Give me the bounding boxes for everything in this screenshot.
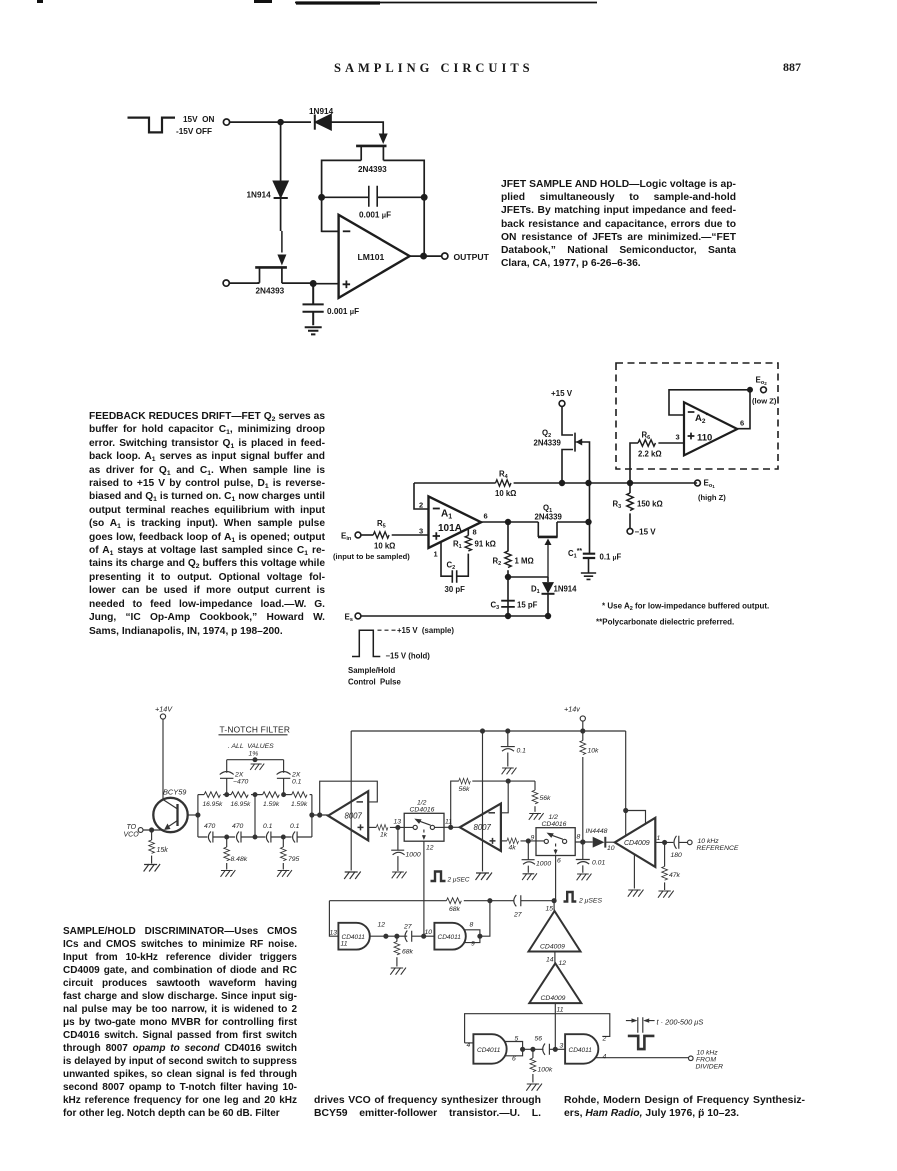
label 68k (top) (449, 906, 461, 913)
node: R3 branch on rail (628, 481, 633, 486)
filter mid vertical (254, 795, 256, 837)
wire: control input to diode (230, 121, 311, 123)
resistor 8.48k (224, 837, 230, 870)
label 0.01 (592, 860, 605, 867)
caption continuation center (314, 1094, 541, 1121)
inverter CD4009 (sawtooth driver) (615, 818, 656, 867)
label pin 12 (gate1) (378, 922, 386, 929)
label 2 uSES (578, 898, 602, 905)
svg-text:2N4339: 2N4339 (535, 513, 563, 522)
svg-text:C3: C3 (491, 601, 500, 612)
terminal 10 kHz REFERENCE (688, 840, 693, 845)
ground on shunt rail (250, 764, 264, 770)
capacitor 180 (674, 836, 687, 849)
label pin 2 (gate4) (602, 1036, 607, 1043)
diode D-left 1N914 (vertical, cathode down) (274, 181, 288, 198)
label A1 (441, 509, 452, 521)
plus sign A2 (688, 433, 695, 440)
svg-text:Ein: Ein (341, 532, 352, 543)
svg-text:47k: 47k (669, 872, 681, 879)
label pin 11 (557, 1007, 564, 1014)
sample/hold control pulse waveform (352, 630, 380, 656)
gate3 output tie bracket (505, 1042, 523, 1056)
wire: A2 feedback loop (669, 390, 750, 415)
ground below 8.48k (221, 870, 236, 877)
svg-text:13: 13 (394, 819, 402, 826)
label +14V (155, 705, 173, 714)
analog switch CD4016 second (536, 828, 575, 856)
wire: CD4009 out down to node3 (554, 1003, 556, 1049)
transistor Q1 2N4339 switch (538, 522, 589, 577)
label pin 13 (gate1) (330, 930, 338, 937)
svg-text:2N4393: 2N4393 (358, 165, 387, 174)
node: shunt rail ground tap (253, 758, 257, 762)
svg-text:1.59k: 1.59k (291, 801, 308, 808)
pin 8 stub and resistor R1 91k (456, 529, 471, 577)
svg-text:2: 2 (602, 1036, 607, 1043)
svg-text:68k: 68k (449, 906, 461, 913)
label pin 6 (switch2 ctl) (557, 858, 561, 865)
label pin 3 (560, 1043, 564, 1050)
ground below 0.1 (502, 768, 517, 775)
label pin 4 (gate4) (603, 1054, 607, 1061)
label pin 12 (559, 960, 567, 967)
label 180 (671, 852, 683, 859)
wire: minus input stub 8007-2 (501, 781, 508, 813)
label R2 (493, 557, 502, 568)
label 1N914 (D1) (554, 585, 578, 594)
svg-text:15V ON: 15V ON (183, 115, 214, 124)
wire: switch2 out to diode (575, 841, 593, 843)
wire: E_s rail (361, 615, 548, 617)
ground below hold cap (305, 327, 322, 334)
filter capacitor rail (198, 832, 312, 843)
node: pin15 junction (552, 899, 556, 903)
svg-text:10 kHz: 10 kHz (697, 1050, 719, 1057)
label 4k (509, 845, 517, 852)
terminal E_o1 (695, 480, 701, 486)
svg-text:15k: 15k (157, 847, 169, 854)
op-amp 8007 (first, output to filter) (328, 791, 368, 840)
label 1k (380, 832, 388, 839)
capacitor 27 (coupling) (405, 931, 424, 942)
label 1 MOhm (515, 557, 534, 566)
MVBR feedback top wire with 68k (329, 898, 514, 904)
svg-text:2 μSES: 2 μSES (578, 898, 602, 905)
node: 1k / 1000 junction pin 13 (396, 825, 400, 829)
label 8.48k (231, 856, 248, 863)
node: input tie 8007-2 (449, 825, 453, 829)
svg-text:8: 8 (473, 528, 477, 537)
svg-text:CD4011: CD4011 (438, 934, 462, 941)
label R3 (613, 500, 622, 511)
label 1000 (first) (406, 852, 421, 859)
inverted pulse symbol (628, 1036, 655, 1049)
svg-text:10 kΩ: 10 kΩ (374, 542, 395, 551)
label CD4009 (624, 840, 650, 847)
pulse symbol 2uSEC (431, 872, 446, 882)
label Control Pulse (348, 678, 402, 687)
capacitor 27 (to CD4009 in) (514, 895, 554, 906)
wire: JFET to plus-input node (258, 282, 314, 284)
feedback loop 8007-1 (320, 781, 378, 816)
label 1/2 CD4016 (first) (410, 800, 435, 814)
label 56k (to ground) (540, 795, 552, 802)
svg-text:91 kΩ: 91 kΩ (475, 540, 496, 549)
svg-text:**Polycarbonate dielectric pre: **Polycarbonate dielectric preferred. (596, 618, 734, 627)
svg-text:+14V: +14V (155, 705, 173, 714)
svg-text:150 kΩ: 150 kΩ (637, 500, 663, 509)
resistor R5 10k input (361, 532, 429, 538)
label 100k (538, 1067, 553, 1074)
ground below 1000 (second) (522, 873, 537, 880)
terminal +15V (559, 401, 565, 407)
node: 100k tap (531, 1047, 535, 1051)
capacitor 2X 0.1 (right shunt) (277, 760, 291, 795)
svg-text:-15V OFF: -15V OFF (176, 127, 212, 136)
svg-text:27: 27 (403, 924, 412, 931)
svg-text:15: 15 (546, 906, 554, 913)
label E_in (341, 532, 352, 543)
wire: gate4 output to divider terminal (595, 1057, 688, 1059)
svg-text:0.001 μF: 0.001 μF (359, 211, 391, 220)
node: base/filter junction (196, 813, 200, 817)
label Sample/Hold (348, 666, 395, 675)
analog switch CD4016 first (404, 813, 444, 841)
svg-text:2X: 2X (291, 772, 301, 779)
ground below 47k (658, 891, 674, 898)
svg-text:4k: 4k (509, 845, 517, 852)
node: cap rail left tap (225, 835, 229, 839)
wire: gate1 output (370, 935, 407, 937)
wire: +14V to BCY59 collector (162, 719, 164, 799)
label pin 10 (425, 929, 433, 936)
svg-text:BCY59: BCY59 (163, 788, 186, 797)
resistor 68k to ground (394, 936, 400, 966)
svg-text:R6: R6 (642, 431, 651, 442)
feedback resistor 56k (8007-2) (451, 778, 535, 827)
svg-text:CD4011: CD4011 (569, 1047, 593, 1054)
filter resistor rail (198, 792, 312, 798)
label 0.1 (C c) (263, 823, 273, 830)
node: pin3 junction (553, 1047, 557, 1051)
svg-text:REFERENCE: REFERENCE (697, 845, 739, 852)
label 27 (coupling) (403, 924, 412, 931)
op-amp A1 101A (429, 496, 482, 548)
svg-text:1 MΩ: 1 MΩ (515, 557, 534, 566)
transistor Q3 BCY59 emitter follower (153, 798, 187, 832)
label 470 (C b) (232, 823, 244, 830)
node: 47k tap (663, 840, 667, 844)
resistor 56k to ground (532, 781, 538, 812)
node: pin10 junction (422, 934, 426, 938)
svg-text:DIVIDER: DIVIDER (696, 1064, 724, 1071)
svg-text:8: 8 (577, 834, 581, 841)
svg-text:16.95k: 16.95k (231, 801, 252, 808)
wire: plus input (313, 283, 338, 285)
diode IN4448 (593, 837, 615, 848)
label T-NOTCH FILTER (220, 725, 291, 735)
svg-text:10 kHz: 10 kHz (698, 838, 720, 845)
svg-text:1: 1 (657, 835, 661, 842)
label pin 9 (gate2) (471, 941, 475, 948)
label 56 (535, 1036, 543, 1043)
label 150 kOhm (637, 500, 663, 509)
label pin 13 (394, 819, 402, 826)
label pin 9 (531, 835, 535, 842)
svg-text:CD4009: CD4009 (540, 944, 565, 951)
node: cap rail right tap (281, 835, 285, 839)
node: gate1 out dot (384, 934, 388, 938)
svg-text:(high Z): (high Z) (698, 493, 726, 502)
svg-text:1: 1 (434, 550, 438, 559)
capacitor 56 (543, 1044, 565, 1055)
svg-text:3: 3 (560, 1043, 564, 1050)
inverter CD4009 (second, pointing up) (529, 963, 581, 1003)
svg-text:+15 V (sample): +15 V (sample) (397, 626, 454, 635)
svg-text:1/2: 1/2 (417, 800, 427, 807)
svg-text:t · 200-500 μS: t · 200-500 μS (657, 1018, 704, 1027)
svg-text:8007: 8007 (345, 812, 363, 821)
svg-text:1k: 1k (380, 832, 388, 839)
svg-text:8: 8 (470, 922, 474, 929)
node: 4k / 1000 junction pin 9 (526, 839, 530, 843)
minus sign 8007-2 (489, 812, 496, 814)
label C3 (491, 601, 500, 612)
svg-text:R4: R4 (499, 470, 509, 481)
wire: minus input from feedback (322, 230, 339, 232)
label pin 12 (426, 845, 434, 852)
node: bracket dot (478, 934, 482, 938)
label 0.1 uF (600, 553, 622, 562)
ground below 0.01 (577, 874, 592, 881)
label CD4009 (up2) (541, 995, 566, 1002)
label 16.95k (R a) (203, 801, 224, 808)
svg-text:R5: R5 (377, 519, 386, 530)
page number 887 (783, 60, 801, 75)
label ALL VALUES 1% (228, 743, 274, 758)
pin 1 stub wire (441, 542, 452, 576)
label 470 (C a) (204, 823, 216, 830)
supply corner down to CD4009 (625, 731, 627, 811)
svg-text:A2*: A2* (695, 411, 709, 426)
svg-text:Q2: Q2 (542, 429, 551, 440)
node: R2/D1 junction (506, 575, 511, 580)
wire: between CD4009 stages (554, 952, 556, 964)
label pin 8 (gate2) (470, 922, 474, 929)
node: gate3 bracket dot (521, 1047, 525, 1051)
label E_o1 (704, 479, 716, 490)
svg-text:27: 27 (513, 912, 522, 919)
label IN4448 (586, 828, 608, 835)
svg-text:FROM: FROM (696, 1057, 716, 1064)
svg-text:R1: R1 (453, 540, 462, 551)
label 2N4339 (Q1) (535, 513, 563, 522)
svg-text:101A: 101A (438, 523, 462, 534)
node: feedback cap junction left (319, 195, 324, 200)
svg-text:Es: Es (345, 613, 353, 624)
resistor 1k (8007-1 plus input) (368, 825, 413, 831)
label CD4011 (gate2) (438, 934, 462, 941)
svg-text:13: 13 (330, 930, 338, 937)
svg-text:12: 12 (559, 960, 567, 967)
svg-text:2X: 2X (234, 772, 244, 779)
wire: A2 output up to E_o2 (737, 390, 750, 429)
wire: A1 output to Q1 (481, 521, 538, 523)
svg-text:A1: A1 (441, 509, 452, 521)
terminal E_in (355, 532, 361, 538)
svg-text:IN4448: IN4448 (586, 828, 608, 835)
power line through 8007-1 (350, 731, 352, 871)
dashed level line +15V (378, 629, 396, 631)
node: resistor rail right cap tap (282, 793, 286, 797)
node: cap rail mid tap (253, 835, 257, 839)
svg-text:LM101: LM101 (358, 252, 385, 262)
wire: bracket up to top wire (480, 901, 490, 937)
label D1 (531, 585, 540, 596)
label 0.1 (bypass) (517, 748, 527, 755)
node: output/R2 junction (506, 520, 511, 525)
svg-text:1%: 1% (249, 751, 259, 758)
label 10 kOhm (R4) (495, 489, 516, 498)
node: Q2 source on rail (560, 481, 565, 486)
pin 8 label (473, 528, 477, 537)
svg-text:470: 470 (204, 823, 216, 830)
caption block 3: SAMPLE/HOLD DISCRIMINATOR (63, 925, 297, 1120)
svg-text:CD4016: CD4016 (542, 821, 567, 828)
label pin 11 (gate1) (341, 941, 348, 948)
svg-text:12: 12 (426, 845, 434, 852)
svg-text:+15 V: +15 V (551, 389, 573, 398)
svg-text:VCO: VCO (124, 832, 140, 839)
control line switch2 to MVBR (555, 856, 557, 901)
label 1000 (second) (536, 861, 551, 868)
svg-text:11: 11 (557, 1007, 564, 1014)
label 2.2 kOhm (638, 450, 662, 459)
svg-text:68k: 68k (402, 949, 414, 956)
svg-text:3: 3 (419, 527, 423, 536)
plus sign LM101 (343, 281, 351, 289)
label R4 (499, 470, 509, 481)
label CD4011 (gate1) (342, 934, 366, 941)
svg-text:R3: R3 (613, 500, 622, 511)
svg-text:0.1: 0.1 (517, 748, 527, 755)
ground stub below CD4009 (633, 855, 635, 889)
node: 68k tap dot (395, 934, 399, 938)
svg-text:6: 6 (512, 1056, 516, 1063)
svg-text:CD4011: CD4011 (477, 1047, 501, 1054)
wire: feedback loop right side down to output node (383, 160, 424, 254)
svg-text:1000: 1000 (406, 852, 421, 859)
label 47k (669, 872, 681, 879)
gate CD4011 third (473, 1034, 506, 1064)
label -15 V (hold) (386, 652, 431, 661)
capacitor 1000 (second) (522, 841, 535, 873)
ground below 56k (529, 813, 544, 820)
node: hold-node on rail (586, 481, 591, 486)
ground below CD4009 (628, 890, 644, 897)
node: pin8 / 10k junction (581, 840, 585, 844)
svg-text:1000: 1000 (536, 861, 551, 868)
caption block 1: JFET SAMPLE AND HOLD (501, 178, 736, 270)
svg-text:Control Pulse: Control Pulse (348, 678, 402, 687)
op-amp 8007 (second) (460, 804, 501, 852)
svg-text:CD4016: CD4016 (410, 807, 435, 814)
label 2X 470 (233, 772, 249, 786)
label -15V (635, 528, 657, 537)
timing annotation capacitor (626, 1017, 655, 1033)
label A2* (695, 411, 709, 426)
minus sign LM101 (343, 230, 351, 232)
wire: filter to opamp output (312, 814, 328, 816)
node: rail / 8007-2 power (481, 729, 485, 733)
label 56k (feedback) (459, 786, 471, 793)
svg-text:2.2 kΩ: 2.2 kΩ (638, 450, 662, 459)
label TO VCO (124, 824, 140, 839)
node: CD4009 supply tap (624, 809, 628, 813)
dashed box around optional follower (616, 363, 778, 469)
filter left vertical (197, 795, 199, 837)
terminal +14V (left) (160, 714, 165, 719)
svg-text:1N914: 1N914 (247, 191, 272, 200)
terminal -15V (627, 528, 633, 534)
label 68k (lower) (402, 949, 414, 956)
svg-text:6: 6 (557, 858, 561, 865)
minus sign 8007-1 (357, 801, 364, 803)
svg-text:0.001 μF: 0.001 μF (327, 307, 359, 316)
pin 6 label A2 (740, 419, 744, 428)
capacitor 0.001 uF (feedback) (322, 186, 425, 207)
note: use A2 (602, 602, 769, 613)
svg-text:1.59k: 1.59k (263, 801, 280, 808)
pin 2 label (419, 501, 423, 510)
inverter CD4009 (first, pointing up) (529, 911, 581, 952)
label (input to be sampled) (333, 552, 410, 561)
pin 3 label (419, 527, 423, 536)
svg-text:56k: 56k (459, 786, 471, 793)
svg-text:9: 9 (471, 941, 475, 948)
label OUTPUT (454, 252, 490, 262)
capacitor C3 15pF (501, 601, 515, 607)
svg-text:10k: 10k (588, 748, 600, 755)
node: feedback cap junction right (422, 195, 427, 200)
input terminal (control) (223, 119, 229, 125)
capacitor 2X 470 (left shunt) (220, 760, 234, 795)
ground below 100k (526, 1084, 542, 1091)
svg-text:11: 11 (341, 941, 348, 948)
wire: R2 bottom to D1 (508, 576, 548, 578)
svg-text:C2: C2 (447, 561, 456, 572)
wire: gate3 out to cap 56 (523, 1048, 544, 1050)
svg-text:0.1: 0.1 (263, 823, 273, 830)
resistor 100k (530, 1049, 536, 1082)
page header title (334, 61, 534, 76)
svg-text:4: 4 (603, 1054, 607, 1061)
wire: op-amp output (410, 255, 442, 257)
label pin 1 (657, 835, 661, 842)
label BCY59 (163, 788, 186, 797)
svg-text:* Use A2 for low-impedance buf: * Use A2 for low-impedance buffered outp… (602, 602, 769, 613)
label -15V OFF (176, 127, 212, 136)
svg-text:TO: TO (127, 824, 137, 831)
label (high Z) (698, 493, 726, 502)
label 795 (288, 856, 300, 863)
label 8007 (second) (474, 823, 492, 832)
plus sign 8007-2 (490, 838, 496, 844)
label 0.001 uF (feedback cap) (359, 211, 391, 220)
svg-text:8.48k: 8.48k (231, 856, 248, 863)
label pin 5 (gate3) (515, 1036, 519, 1043)
